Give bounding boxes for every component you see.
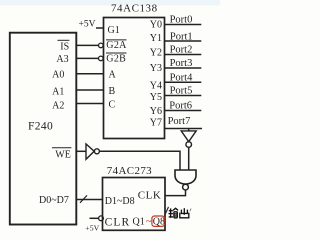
bubble inverter U2 (186, 142, 192, 148)
svg-text:Y5: Y5 (150, 92, 162, 103)
wire Y6 Port6 (165, 110, 202, 112)
wire nand output to CLK (165, 190, 186, 196)
svg-text:D1~D8: D1~D8 (105, 196, 135, 207)
wire A2 to C (76, 103, 104, 105)
svg-text:74AC138: 74AC138 (111, 3, 158, 15)
inverter U3 triangle WE (86, 144, 94, 159)
wire inverter U2 to gate input (188, 147, 190, 170)
wire Y1 Port1 (165, 40, 202, 42)
svg-text:Y3: Y3 (150, 63, 162, 74)
inverter U2 triangle on Port7 (181, 131, 196, 142)
svg-text:Port6: Port6 (169, 101, 192, 112)
svg-text:Port4: Port4 (170, 73, 194, 84)
svg-text:WE: WE (55, 150, 71, 161)
wire Y7 Port7 (165, 128, 203, 130)
wire Y2 Port2 (165, 54, 202, 56)
bubble inverter U3 (94, 149, 99, 154)
svg-text:A0: A0 (52, 70, 64, 81)
wire A3 to G2B (76, 57, 98, 59)
svg-text:CLR: CLR (105, 217, 131, 229)
annotation tick mark (190, 209, 191, 212)
svg-text:G2A: G2A (106, 40, 127, 51)
annotation text shu (output char 1) (169, 208, 179, 218)
svg-text:CLK: CLK (138, 189, 162, 201)
wire WE to inverter U3 (76, 150, 86, 152)
wire Port7 drop to inverter (188, 129, 190, 132)
op IC 74AC138 box (104, 18, 165, 139)
wire Y5 Port5 (165, 95, 202, 97)
svg-text:Q1~Q8: Q1~Q8 (133, 217, 166, 228)
svg-text:Port1: Port1 (170, 32, 193, 43)
annotation text chu (output char 2) (180, 208, 189, 218)
wire Y3 Port3 (165, 67, 202, 69)
IC F240 box (10, 33, 77, 225)
svg-text:Port5: Port5 (170, 86, 193, 97)
svg-text:Port0: Port0 (170, 15, 193, 26)
svg-text:Port2: Port2 (170, 45, 193, 56)
wire +5V to G1 (96, 27, 104, 29)
bubble nand U4 (183, 184, 189, 190)
IC 74AC273 box (103, 178, 166, 231)
bubble G2A (99, 43, 104, 48)
nand gate U4 body (175, 170, 196, 184)
bus slash mark (80, 195, 87, 202)
wire inverter U3 to gate input (100, 151, 181, 170)
bubble CLR (99, 216, 104, 221)
svg-text:B: B (109, 86, 116, 97)
svg-text:74AC273: 74AC273 (107, 165, 152, 177)
svg-text:IS: IS (60, 41, 69, 52)
svg-text:D0~D7: D0~D7 (39, 195, 69, 206)
svg-text:Y0: Y0 (150, 20, 162, 31)
svg-text:Y6: Y6 (150, 106, 162, 117)
svg-text:Y4: Y4 (150, 81, 162, 92)
svg-text:G1: G1 (108, 25, 120, 36)
wire Y4 Port4 (165, 81, 202, 83)
svg-text:C: C (109, 100, 116, 111)
svg-text:Y2: Y2 (150, 47, 162, 58)
svg-text:Y1: Y1 (150, 33, 162, 44)
annotation slash (164, 207, 168, 216)
wire +5V to CLR (90, 217, 99, 219)
svg-text:+5V: +5V (85, 224, 99, 233)
wire A1 to B (76, 89, 104, 91)
red highlight box around Q8 (152, 216, 165, 226)
svg-text:F240: F240 (28, 120, 53, 132)
wire D0~D7 bus (76, 199, 103, 201)
svg-text:A2: A2 (52, 101, 64, 112)
svg-text:A3: A3 (56, 54, 68, 65)
wire A0 to A (76, 73, 104, 75)
svg-text:A1: A1 (52, 86, 64, 97)
svg-text:+5V: +5V (79, 20, 96, 30)
svg-text:Y7: Y7 (150, 118, 162, 129)
svg-text:G2B: G2B (106, 53, 126, 64)
wire IS to G2A (76, 44, 98, 46)
svg-text:Port7: Port7 (168, 116, 191, 127)
bubble G2B (99, 56, 104, 61)
svg-text:Port3: Port3 (170, 58, 193, 69)
svg-text:A: A (109, 70, 117, 81)
wire Y0 Port0 (165, 24, 202, 26)
